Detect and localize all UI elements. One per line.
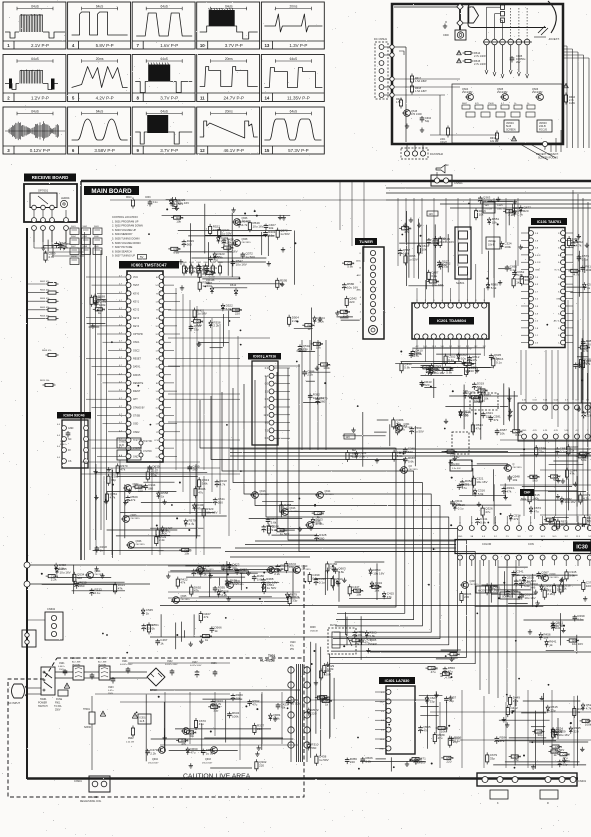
svg-text:2SC1815: 2SC1815	[95, 574, 105, 576]
svg-text:10k: 10k	[281, 706, 286, 710]
svg-text:2.2k: 2.2k	[513, 699, 519, 703]
svg-text:IC401 LA7830: IC401 LA7830	[385, 679, 410, 683]
svg-text:100k: 100k	[323, 366, 330, 370]
svg-text:5.6k: 5.6k	[408, 460, 414, 464]
svg-text:10u 16V: 10u 16V	[565, 500, 576, 504]
svg-text:0.1u: 0.1u	[515, 433, 521, 437]
svg-text:10k: 10k	[357, 633, 362, 637]
svg-text:10k: 10k	[316, 346, 321, 350]
svg-text:C600: C600	[443, 34, 449, 37]
svg-text:0.1u: 0.1u	[319, 580, 325, 584]
svg-text:10u 16V: 10u 16V	[253, 224, 264, 228]
svg-text:0.0047u 500V: 0.0047u 500V	[120, 664, 133, 666]
svg-text:0.01u: 0.01u	[513, 212, 519, 214]
svg-text:LEVEL: LEVEL	[473, 401, 481, 404]
svg-text:IC901: IC901	[140, 718, 147, 720]
svg-text:1u 50V: 1u 50V	[319, 758, 329, 762]
svg-text:Q619: Q619	[302, 565, 309, 568]
svg-text:1u 50V: 1u 50V	[202, 284, 212, 288]
svg-text:47u: 47u	[462, 486, 467, 490]
svg-text:240-B: 240-B	[539, 125, 546, 128]
svg-text:GND: GND	[535, 270, 540, 272]
svg-text:2.2k: 2.2k	[150, 752, 156, 756]
svg-text:2SC1815: 2SC1815	[181, 599, 191, 601]
svg-text:24.7V P-P: 24.7V P-P	[224, 95, 245, 100]
svg-text:2SC1815: 2SC1815	[131, 518, 141, 520]
svg-text:T301: T301	[463, 390, 469, 393]
svg-text:47k: 47k	[131, 498, 136, 502]
svg-text:OP7601: OP7601	[38, 189, 49, 193]
svg-text:64uS: 64uS	[160, 57, 167, 61]
svg-text:20ms: 20ms	[290, 4, 298, 8]
svg-text:S6010: S6010	[71, 256, 78, 258]
svg-text:2SC1815: 2SC1815	[513, 467, 523, 469]
svg-text:FUSE: FUSE	[56, 699, 63, 701]
svg-text:5.6k: 5.6k	[217, 255, 223, 259]
svg-text:C605: C605	[60, 441, 66, 443]
svg-text:DI: DI	[68, 449, 71, 452]
svg-text:47k: 47k	[180, 581, 185, 585]
svg-text:CHF: CHF	[524, 491, 531, 495]
svg-text:3.7V P-P: 3.7V P-P	[225, 43, 243, 48]
svg-text:1/2W: 1/2W	[569, 102, 575, 105]
svg-text:REMOTE: REMOTE	[133, 382, 144, 385]
svg-text:R610: R610	[126, 197, 132, 199]
svg-text:8Ω: 8Ω	[445, 163, 448, 167]
svg-text:CN901: CN901	[74, 780, 82, 783]
svg-text:DATA5: DATA5	[133, 374, 141, 377]
svg-text:2.7k 1/2W: 2.7k 1/2W	[474, 62, 486, 66]
svg-text:1u 50V: 1u 50V	[222, 231, 232, 235]
svg-text:H-SYNC: H-SYNC	[143, 440, 152, 443]
svg-text:-DC/EXT.: -DC/EXT.	[548, 37, 560, 41]
svg-text:47u: 47u	[190, 751, 195, 755]
svg-text:560: 560	[587, 519, 591, 523]
svg-text:12.9: 12.9	[264, 415, 269, 417]
svg-text:11.35V P-P: 11.35V P-P	[287, 95, 310, 100]
svg-text:C931: C931	[122, 661, 128, 663]
svg-text:0.1u: 0.1u	[448, 358, 454, 362]
svg-text:Q614: Q614	[325, 490, 332, 493]
svg-text:20ms: 20ms	[225, 57, 233, 61]
svg-text:14.7: 14.7	[264, 407, 269, 409]
svg-text:0.047u: 0.047u	[58, 666, 65, 668]
svg-text:R603 47k: R603 47k	[40, 290, 50, 292]
svg-text:1.2V P-P: 1.2V P-P	[31, 95, 49, 100]
svg-text:2.2k: 2.2k	[51, 578, 57, 582]
svg-text:4.7k: 4.7k	[48, 255, 54, 259]
svg-text:47k: 47k	[204, 615, 209, 619]
svg-text:1k: 1k	[152, 627, 156, 631]
svg-text:2SC1815: 2SC1815	[235, 584, 245, 586]
svg-text:5.8V P-P: 5.8V P-P	[96, 43, 114, 48]
svg-text:33p: 33p	[194, 327, 199, 331]
svg-text:R610 10k: R610 10k	[40, 380, 50, 382]
svg-text:RESET: RESET	[133, 358, 142, 361]
svg-text:CON: CON	[528, 542, 534, 546]
svg-text:5.6k: 5.6k	[347, 265, 353, 269]
svg-text:0.1u: 0.1u	[549, 521, 555, 525]
svg-text:220: 220	[574, 730, 579, 734]
svg-text:CN501: CN501	[454, 181, 463, 185]
svg-text:100k: 100k	[59, 244, 66, 248]
svg-text:ST/SB: ST/SB	[133, 415, 140, 418]
svg-text:2.2k 2W: 2.2k 2W	[126, 742, 135, 744]
svg-text:2.1V P-P: 2.1V P-P	[31, 43, 49, 48]
svg-text:1k: 1k	[563, 587, 567, 591]
svg-text:0.1u: 0.1u	[268, 233, 274, 237]
svg-text:3.7V P-P: 3.7V P-P	[160, 95, 178, 100]
svg-text:Q602: Q602	[133, 483, 140, 486]
svg-text:100uH: 100uH	[440, 142, 447, 144]
svg-text:100k: 100k	[585, 268, 591, 272]
svg-text:CN602: CN602	[47, 607, 56, 611]
svg-text:4.7k: 4.7k	[574, 273, 580, 277]
svg-text:Q905: Q905	[370, 638, 377, 642]
svg-text:220: 220	[424, 383, 429, 387]
svg-text:LED601: LED601	[61, 197, 70, 200]
svg-text:560: 560	[533, 479, 538, 483]
svg-text:C901: C901	[59, 663, 65, 665]
svg-text:10u 16V: 10u 16V	[558, 733, 569, 737]
svg-text:47u: 47u	[485, 510, 490, 514]
svg-text:46.1V P-P: 46.1V P-P	[224, 148, 245, 153]
svg-text:2SC2482: 2SC2482	[532, 91, 543, 94]
svg-text:10u 16V: 10u 16V	[572, 642, 583, 646]
svg-text:SWITCH: SWITCH	[38, 705, 48, 708]
svg-text:AFC: AFC	[357, 274, 362, 277]
svg-text:SCREEN: SCREEN	[506, 130, 516, 132]
svg-text:15: 15	[264, 148, 269, 153]
svg-text:(FLTER): (FLTER)	[72, 665, 80, 667]
svg-text:10k: 10k	[492, 221, 497, 225]
svg-text:KEY1: KEY1	[133, 300, 140, 303]
svg-text:T3.15A: T3.15A	[54, 705, 62, 708]
svg-text:2SC2482: 2SC2482	[462, 91, 473, 94]
svg-text:C903: C903	[108, 687, 114, 689]
svg-text:100k: 100k	[232, 715, 239, 719]
svg-text:5V: 5V	[140, 255, 144, 259]
svg-text:220: 220	[146, 626, 151, 630]
svg-text:1.6V P-P: 1.6V P-P	[160, 43, 178, 48]
svg-text:10k: 10k	[500, 432, 505, 436]
svg-text:R604 47k: R604 47k	[40, 298, 50, 300]
svg-text:AGC: AGC	[356, 259, 361, 262]
svg-text:560: 560	[408, 450, 413, 454]
svg-text:OSC1: OSC1	[133, 341, 140, 344]
svg-text:2SD400: 2SD400	[368, 643, 378, 646]
svg-text:VCC: VCC	[133, 276, 138, 279]
svg-text:220: 220	[455, 503, 460, 507]
svg-text:64uS: 64uS	[290, 109, 297, 113]
svg-text:2SC1815: 2SC1815	[404, 427, 414, 429]
svg-text:1. S601 PROGRAM UP: 1. S601 PROGRAM UP	[112, 220, 139, 223]
svg-text:10k: 10k	[543, 636, 548, 640]
svg-text:33p: 33p	[537, 733, 542, 737]
svg-text:IC101 TA8701: IC101 TA8701	[537, 220, 561, 224]
svg-text:TH901: TH901	[83, 709, 91, 711]
svg-text:33p: 33p	[490, 757, 495, 761]
svg-text:100u 16V: 100u 16V	[497, 209, 507, 211]
svg-text:R602 47k: R602 47k	[40, 281, 50, 283]
svg-text:220: 220	[267, 528, 272, 532]
svg-text:12: 12	[200, 148, 205, 153]
svg-text:9. S607 TUNING UP: 9. S607 TUNING UP	[112, 255, 135, 258]
svg-text:10u 16V: 10u 16V	[432, 283, 443, 287]
svg-text:64uS: 64uS	[31, 109, 38, 113]
svg-text:L901: L901	[72, 657, 78, 660]
svg-text:Q310: Q310	[550, 573, 557, 576]
svg-text:VR302: VR302	[530, 582, 538, 586]
svg-text:3.3u 50V: 3.3u 50V	[452, 468, 461, 470]
svg-text:2SC1815: 2SC1815	[325, 494, 335, 496]
svg-text:10k: 10k	[269, 226, 274, 230]
svg-text:GND: GND	[458, 536, 463, 538]
svg-text:GND: GND	[68, 427, 74, 430]
svg-text:1k: 1k	[325, 703, 329, 707]
svg-text:33p: 33p	[213, 708, 218, 712]
svg-text:AIO 4.3: AIO 4.3	[554, 320, 562, 323]
svg-text:13: 13	[264, 43, 269, 48]
svg-text:33p: 33p	[292, 598, 297, 602]
svg-text:4.7k: 4.7k	[242, 223, 248, 227]
svg-text:1N4148: 1N4148	[310, 631, 318, 633]
svg-text:1k: 1k	[160, 642, 164, 646]
svg-text:2.2k: 2.2k	[213, 324, 219, 328]
svg-text:10u 16V: 10u 16V	[461, 356, 472, 360]
svg-text:5.6k: 5.6k	[397, 454, 403, 458]
svg-text:Q604: Q604	[95, 570, 102, 573]
svg-text:100k: 100k	[126, 194, 132, 196]
svg-text:25V: 25V	[290, 649, 295, 651]
svg-text:Q903: Q903	[205, 758, 212, 761]
svg-text:10u 16V: 10u 16V	[313, 396, 324, 400]
svg-text:NC: NC	[68, 438, 72, 441]
svg-text:220: 220	[350, 760, 355, 764]
svg-text:0.1u: 0.1u	[196, 323, 202, 327]
svg-text:2SC1815: 2SC1815	[242, 221, 252, 223]
svg-text:5.6k: 5.6k	[581, 458, 587, 462]
svg-text:T302: T302	[454, 456, 460, 459]
svg-text:2kV: 2kV	[516, 60, 521, 64]
svg-text:Q: Q	[513, 463, 515, 466]
svg-text:100k: 100k	[213, 228, 220, 232]
svg-text:64uS: 64uS	[290, 57, 297, 61]
svg-text:470 1/4W: 470 1/4W	[411, 113, 422, 116]
svg-text:OSC2: OSC2	[133, 349, 140, 352]
svg-text:Q904: Q904	[152, 758, 159, 761]
svg-text:HL-4025B: HL-4025B	[260, 659, 275, 663]
svg-text:3.7V P-P: 3.7V P-P	[160, 148, 178, 153]
svg-text:64uS: 64uS	[225, 4, 232, 8]
svg-text:33p: 33p	[524, 278, 529, 282]
svg-text:560: 560	[192, 468, 197, 472]
svg-text:S2K60: S2K60	[84, 727, 92, 729]
svg-text:0.1u: 0.1u	[173, 251, 179, 255]
svg-text:10u 16V: 10u 16V	[476, 480, 487, 484]
svg-text:10k: 10k	[356, 592, 361, 596]
svg-text:2SC1815: 2SC1815	[276, 569, 286, 571]
svg-text:RECEIVE BOARD: RECEIVE BOARD	[32, 175, 69, 180]
svg-text:Vert: Vert	[485, 204, 489, 207]
svg-text:Q613: Q613	[260, 490, 267, 493]
svg-text:10k: 10k	[227, 241, 232, 245]
svg-text:GND: GND	[379, 748, 384, 750]
svg-text:47u: 47u	[197, 506, 202, 510]
svg-text:2SC1815: 2SC1815	[470, 584, 480, 586]
svg-text:10k: 10k	[422, 248, 427, 252]
svg-text:6. S606 VOLUME DOWN: 6. S606 VOLUME DOWN	[112, 242, 141, 245]
svg-text:1k: 1k	[516, 281, 520, 285]
svg-text:2SC1815: 2SC1815	[290, 511, 300, 513]
svg-text:D608: D608	[310, 627, 316, 629]
svg-text:20ms: 20ms	[96, 57, 104, 61]
svg-text:AC INPUT: AC INPUT	[8, 701, 21, 705]
svg-text:SECAM: SECAM	[473, 397, 482, 400]
svg-text:47k: 47k	[355, 642, 360, 646]
svg-text:33p: 33p	[443, 265, 448, 269]
svg-text:2SC1815: 2SC1815	[205, 569, 215, 571]
svg-text:1k: 1k	[587, 286, 591, 290]
svg-text:2.2k: 2.2k	[59, 567, 65, 571]
svg-text:5k-B: 5k-B	[506, 125, 511, 128]
svg-text:47 1/2W: 47 1/2W	[485, 209, 493, 211]
svg-text:47k: 47k	[181, 742, 186, 746]
svg-text:1k: 1k	[556, 732, 560, 736]
svg-text:Q608: Q608	[242, 238, 249, 241]
svg-text:SA501: SA501	[456, 281, 465, 285]
svg-text:250V: 250V	[59, 669, 65, 671]
svg-text:5.6k: 5.6k	[480, 520, 486, 524]
svg-text:IC601 TMST3C47: IC601 TMST3C47	[131, 262, 167, 267]
svg-text:33p: 33p	[453, 740, 458, 744]
svg-text:100k: 100k	[504, 245, 511, 249]
svg-text:5.6k: 5.6k	[257, 578, 263, 582]
svg-text:560: 560	[311, 746, 316, 750]
svg-text:5. S605 TUNING DOWN: 5. S605 TUNING DOWN	[112, 238, 140, 241]
svg-text:IC201 TDA9804: IC201 TDA9804	[437, 318, 467, 323]
svg-text:1u 50V: 1u 50V	[280, 232, 290, 236]
svg-text:Q621: Q621	[235, 580, 242, 583]
svg-text:4.7k: 4.7k	[220, 483, 226, 487]
svg-text:L902: L902	[98, 657, 104, 660]
svg-text:COL: COL	[154, 440, 159, 442]
svg-text:F901: F901	[55, 703, 61, 705]
svg-text:APT: APT	[133, 398, 138, 401]
svg-text:47u: 47u	[198, 490, 203, 494]
svg-text:2SC1815: 2SC1815	[242, 242, 252, 244]
svg-text:FOCUS: FOCUS	[539, 130, 548, 132]
svg-text:5.6k: 5.6k	[569, 574, 575, 578]
svg-text:0.1u: 0.1u	[560, 450, 566, 454]
svg-text:33p: 33p	[430, 699, 435, 703]
svg-text:4.7k: 4.7k	[586, 706, 591, 710]
svg-text:12V: 12V	[346, 436, 351, 439]
svg-text:33p: 33p	[539, 449, 544, 453]
svg-text:10u 16V: 10u 16V	[434, 371, 445, 375]
svg-text:10u 16V: 10u 16V	[236, 262, 247, 266]
svg-text:100k: 100k	[327, 667, 334, 671]
svg-text:L601: L601	[440, 138, 446, 141]
svg-text:3. S603 VOLUME UP: 3. S603 VOLUME UP	[112, 229, 136, 232]
svg-text:STAND BY: STAND BY	[133, 406, 145, 409]
svg-text:VO 3.4: VO 3.4	[554, 270, 562, 272]
svg-text:0.1u: 0.1u	[496, 361, 502, 365]
svg-text:GND: GND	[133, 455, 139, 458]
svg-text:Q616: Q616	[290, 507, 297, 510]
svg-text:TUNER: TUNER	[359, 239, 373, 244]
svg-text:220: 220	[349, 300, 354, 304]
svg-text:33p: 33p	[449, 699, 454, 703]
svg-text:47u: 47u	[476, 427, 481, 431]
svg-text:12V: 12V	[429, 213, 434, 216]
svg-text:2SC1815: 2SC1815	[133, 487, 143, 489]
svg-text:47k: 47k	[514, 758, 519, 762]
svg-text:10u 16V: 10u 16V	[60, 570, 71, 574]
svg-text:CS: CS	[68, 460, 72, 463]
svg-text:47u: 47u	[323, 699, 328, 703]
svg-text:100k: 100k	[585, 723, 591, 727]
svg-text:64uS: 64uS	[160, 109, 167, 113]
svg-text:2SC1815: 2SC1815	[550, 577, 560, 579]
svg-text:5.6k: 5.6k	[404, 365, 410, 369]
svg-text:64uS: 64uS	[160, 4, 167, 8]
svg-text:T901: T901	[268, 654, 275, 658]
svg-text:220: 220	[464, 595, 469, 599]
svg-text:560: 560	[319, 536, 324, 540]
svg-text:V-SYNC: V-SYNC	[143, 450, 152, 453]
svg-text:AC LINE: AC LINE	[72, 661, 81, 664]
svg-text:2SC1815T: 2SC1815T	[202, 763, 213, 765]
svg-text:1u 50V: 1u 50V	[408, 258, 418, 262]
svg-text:C116: C116	[513, 207, 519, 210]
svg-text:DL300: DL300	[452, 463, 460, 466]
svg-text:0.0047u 500V: 0.0047u 500V	[165, 664, 178, 666]
svg-text:33p: 33p	[303, 347, 308, 351]
svg-text:R608 47k: R608 47k	[42, 350, 52, 352]
svg-text:IC603 LA7916: IC603 LA7916	[253, 354, 276, 358]
svg-text:4.7k: 4.7k	[216, 702, 222, 706]
svg-text:AC LINE: AC LINE	[98, 661, 107, 664]
svg-text:IC30: IC30	[576, 545, 588, 551]
svg-text:(FLTER): (FLTER)	[98, 665, 106, 667]
svg-text:CN401: CN401	[578, 779, 587, 783]
svg-text:KEY4: KEY4	[133, 325, 140, 328]
svg-text:CONTROL LOCATION:: CONTROL LOCATION:	[112, 216, 138, 219]
svg-text:SUP/REG: SUP/REG	[502, 596, 513, 599]
svg-text:10u 16V: 10u 16V	[178, 201, 189, 205]
svg-text:Q606: Q606	[242, 217, 249, 220]
svg-text:R605 47k: R605 47k	[40, 307, 50, 309]
svg-text:IDENT: IDENT	[133, 390, 141, 393]
svg-text:0.047u 500V: 0.047u 500V	[190, 665, 202, 667]
svg-text:DC/CN5H2: DC/CN5H2	[430, 152, 444, 156]
svg-text:5.6k: 5.6k	[202, 482, 208, 486]
svg-text:1k: 1k	[161, 495, 165, 499]
svg-text:10u 16V: 10u 16V	[524, 596, 535, 600]
svg-text:560: 560	[187, 242, 192, 246]
svg-text:560: 560	[148, 486, 153, 490]
svg-text:OPTCHK: OPTCHK	[133, 333, 143, 336]
svg-text:1.5A 1/8W: 1.5A 1/8W	[415, 80, 427, 83]
svg-text:0.1u: 0.1u	[209, 275, 215, 279]
svg-text:57.3V P-P: 57.3V P-P	[288, 148, 309, 153]
svg-text:Q307: Q307	[470, 580, 477, 583]
svg-text:5.6k: 5.6k	[226, 307, 232, 311]
svg-text:Q618: Q618	[315, 520, 322, 523]
svg-text:4.0 IF: 4.0 IF	[535, 255, 541, 257]
svg-text:64uS: 64uS	[96, 109, 103, 113]
